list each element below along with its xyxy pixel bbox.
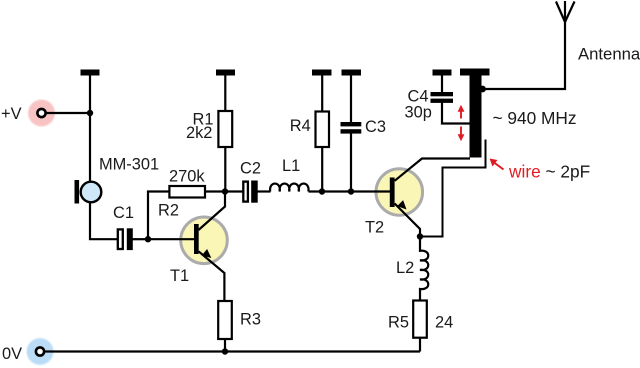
wire 0V rail [45, 350, 420, 352]
wire microphone to C1 [90, 203, 117, 239]
terminal +V [28, 100, 55, 127]
svg-text:C2: C2 [240, 160, 261, 178]
wire node C to C2 [225, 190, 243, 192]
wire supply bar to C3 [350, 76, 352, 123]
svg-text:C3: C3 [365, 118, 386, 136]
+V supply rail bar (C4 branch) [433, 70, 452, 76]
inductor L1 [270, 184, 308, 192]
svg-text:L1: L1 [282, 157, 300, 175]
wire antenna rod to antenna [483, 22, 566, 89]
svg-text:R3: R3 [240, 311, 261, 329]
wire R4 to node D [321, 147, 323, 192]
node B junction [145, 236, 151, 242]
svg-text:R2: R2 [158, 202, 179, 220]
terminal 0V [27, 338, 54, 365]
svg-text:30p: 30p [405, 104, 432, 122]
node C junction [222, 188, 228, 194]
wire 2pF feedback from emitter node to antenna rod [420, 140, 486, 237]
wire node B up to R2 [148, 192, 169, 240]
microphone MM-301 [75, 180, 102, 204]
wire C1 to node B [133, 238, 149, 240]
wire C2 to L1 [258, 190, 271, 192]
wire supply bar to R4 [321, 76, 323, 112]
svg-text:R5: R5 [388, 314, 409, 332]
transistor T2 [390, 159, 470, 237]
transistor T1 [194, 192, 225, 302]
wire supply bar to C4 [441, 76, 443, 93]
resistor R1 [218, 111, 232, 147]
svg-text:0V: 0V [2, 345, 22, 363]
svg-text:T1: T1 [170, 267, 189, 285]
capacitor C2 [243, 181, 257, 203]
wire R5 to 0V rail [419, 338, 421, 352]
svg-text:24: 24 [435, 314, 453, 332]
wire node B to T1 base [148, 238, 194, 240]
svg-text:R4: R4 [290, 117, 311, 135]
wire C4 to antenna rod tap [442, 103, 470, 124]
svg-text:~ 2pF: ~ 2pF [546, 162, 591, 182]
wire supply bar to microphone [89, 76, 91, 183]
capacitor C1 [118, 228, 133, 250]
svg-text:L2: L2 [396, 259, 414, 277]
wire +V terminal to node A [47, 112, 91, 114]
svg-text:T2: T2 [365, 219, 384, 237]
wire R2 to node C [205, 190, 225, 192]
wire L1 to T2 base through node D and node E [309, 190, 391, 192]
node D junction [319, 188, 325, 194]
red arrow up (C4 tap adjust) [458, 105, 465, 119]
wire supply bar to R1 [224, 76, 226, 112]
T1 highlight circle [181, 217, 228, 264]
capacitor C3 [341, 122, 362, 134]
resistor R5 [413, 301, 427, 338]
+V supply rail bar (C3 branch) [342, 70, 362, 76]
svg-text:270k: 270k [169, 168, 205, 186]
red arrow pointing to 2pF wire [490, 159, 504, 170]
inductor L2 [420, 237, 428, 300]
svg-text:~ 940 MHz: ~ 940 MHz [493, 108, 577, 128]
node H antenna tap junction [479, 86, 486, 93]
wire C3 to node E [350, 134, 352, 192]
node A junction [87, 110, 93, 116]
node E junction [348, 188, 354, 194]
T2 highlight circle [376, 169, 423, 216]
node G rail junction [222, 348, 228, 354]
wire R1 to node C [224, 147, 226, 192]
svg-text:MM-301: MM-301 [99, 156, 159, 174]
svg-text:C1: C1 [113, 204, 134, 222]
capacitor C4 [431, 92, 454, 103]
+V supply rail bar (mic branch) [81, 70, 100, 76]
node F emitter junction [417, 233, 423, 239]
wire R3 to 0V rail [224, 339, 226, 352]
svg-text:+V: +V [1, 105, 22, 123]
+V supply rail bar (R1 branch) [216, 70, 235, 76]
svg-text:Antenna: Antenna [578, 45, 640, 64]
resistor R2 [169, 186, 205, 198]
red arrow down (C4 tap adjust) [458, 127, 465, 142]
antenna rod top cap [460, 69, 490, 76]
svg-text:2k2: 2k2 [186, 124, 212, 142]
+V supply rail bar (R4 branch) [312, 70, 332, 76]
resistor R4 [316, 112, 330, 148]
antenna rod [470, 76, 482, 158]
antenna [556, 1, 575, 22]
svg-text:wire: wire [508, 162, 541, 182]
resistor R3 [218, 301, 232, 339]
